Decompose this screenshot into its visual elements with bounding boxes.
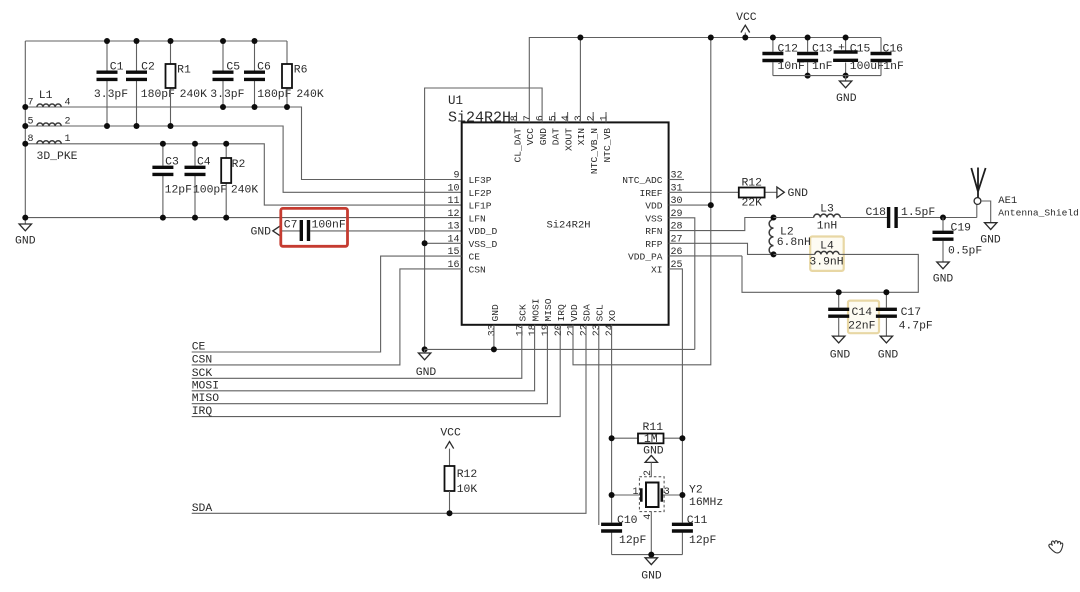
svg-text:22K: 22K — [741, 198, 762, 210]
svg-text:C12: C12 — [778, 44, 799, 56]
svg-text:1.5pF: 1.5pF — [901, 207, 935, 219]
power symbol VCC — [744, 26, 746, 38]
svg-text:6: 6 — [536, 115, 547, 121]
svg-text:VSS_D: VSS_D — [469, 239, 498, 250]
svg-text:1nF: 1nF — [883, 61, 904, 73]
inductor L4 3.9nH — [742, 254, 918, 292]
capacitor C7 100nF — [301, 220, 308, 241]
wire pin23 SCL dangling — [598, 325, 600, 525]
svg-text:13: 13 — [447, 222, 459, 233]
svg-text:GND: GND — [788, 188, 809, 200]
wire crystal pin 4 to gnd rail — [650, 512, 652, 555]
svg-text:C13: C13 — [812, 44, 833, 56]
red highlight box around C7 — [281, 208, 348, 246]
wire pin33 GND — [493, 325, 495, 350]
svg-text:LF3P: LF3P — [469, 175, 492, 186]
svg-text:SDA: SDA — [582, 304, 593, 322]
resistor R12 10K pullup — [449, 442, 451, 467]
capacitor C10 12pF — [611, 533, 613, 555]
svg-text:Y2: Y2 — [689, 484, 703, 496]
svg-text:4.7pF: 4.7pF — [899, 321, 933, 333]
svg-text:IRQ: IRQ — [192, 406, 213, 418]
svg-text:L4: L4 — [820, 240, 834, 252]
svg-text:GND: GND — [641, 570, 662, 582]
svg-text:1: 1 — [64, 134, 70, 145]
wire bottom rail LFN — [25, 217, 461, 219]
svg-text:3.3pF: 3.3pF — [210, 89, 244, 101]
svg-text:C4: C4 — [197, 157, 211, 169]
svg-text:LF1P: LF1P — [469, 201, 492, 212]
svg-text:XIN: XIN — [576, 128, 587, 145]
svg-text:NTC_ADC: NTC_ADC — [622, 175, 663, 186]
svg-text:VDD: VDD — [645, 201, 663, 212]
svg-text:22nF: 22nF — [848, 321, 876, 333]
svg-text:100nF: 100nF — [312, 219, 346, 231]
svg-text:3: 3 — [664, 487, 670, 498]
inductor L1 winding 1 pins 7-4 — [37, 104, 61, 107]
svg-text:7: 7 — [27, 97, 33, 108]
wire left vertical to ground — [24, 41, 26, 224]
svg-text:GND: GND — [416, 367, 437, 379]
svg-text:R6: R6 — [294, 65, 308, 77]
wire pin20 IRQ route — [192, 325, 561, 417]
yellow highlight box around L4 — [810, 237, 844, 271]
svg-text:SCK: SCK — [192, 368, 213, 380]
svg-text:IRQ: IRQ — [556, 304, 567, 322]
svg-text:CE: CE — [469, 252, 481, 263]
wire pin16 CSN route — [192, 269, 462, 365]
svg-text:3.3pF: 3.3pF — [94, 89, 128, 101]
wire pin14 VSS_D to GND vertical — [425, 242, 462, 244]
ground flag at R12 — [777, 187, 784, 198]
wire VCC top rail — [529, 38, 881, 123]
svg-text:GND: GND — [250, 227, 271, 239]
svg-text:C6: C6 — [257, 61, 271, 73]
svg-text:C19: C19 — [951, 223, 972, 235]
ground symbol left — [19, 224, 31, 231]
svg-text:12pF: 12pF — [619, 535, 647, 547]
svg-text:R12: R12 — [457, 469, 478, 481]
svg-text:1nF: 1nF — [812, 61, 833, 73]
svg-text:C16: C16 — [883, 44, 904, 56]
capacitor C15 polarized 100uF — [845, 38, 847, 76]
svg-text:6.8nH: 6.8nH — [777, 237, 811, 249]
svg-text:1nH: 1nH — [817, 220, 838, 232]
ground symbol crystal — [645, 558, 657, 565]
svg-text:C3: C3 — [165, 157, 179, 169]
svg-text:IREF: IREF — [639, 188, 662, 199]
wire pin26 VDD_PA — [669, 255, 742, 257]
svg-text:C2: C2 — [141, 61, 155, 73]
ground symbol under IC — [424, 349, 426, 352]
svg-text:33: 33 — [488, 324, 499, 336]
pin 2 NTC_VB_N stub — [592, 112, 594, 122]
svg-text:8: 8 — [27, 134, 33, 145]
resistor R12 22K on IREF — [669, 191, 777, 193]
resistor R6 — [286, 41, 288, 107]
svg-text:10nF: 10nF — [778, 61, 806, 73]
capacitor C3 — [162, 144, 164, 218]
svg-text:VDD: VDD — [569, 304, 580, 322]
inductor L2 6.8nH — [769, 219, 773, 254]
svg-text:L1: L1 — [39, 90, 53, 102]
wire pin22 SDA route — [192, 325, 586, 514]
svg-text:GND: GND — [878, 349, 899, 361]
svg-text:GND: GND — [980, 235, 1001, 247]
resistor R1 — [170, 41, 172, 126]
svg-text:5: 5 — [27, 116, 33, 127]
wire pin6 GND bridge over IC — [425, 88, 542, 349]
cursor hand icon — [1049, 541, 1063, 553]
svg-text:C1: C1 — [110, 61, 124, 73]
pin 8 CL_DAT stub — [516, 112, 518, 122]
svg-text:NTC_VB: NTC_VB — [602, 128, 613, 163]
svg-text:1: 1 — [632, 487, 638, 498]
capacitor C16 — [880, 38, 882, 76]
svg-text:VDD_D: VDD_D — [469, 226, 498, 237]
svg-text:4: 4 — [64, 97, 70, 108]
svg-text:R1: R1 — [177, 65, 191, 77]
svg-text:3D_PKE: 3D_PKE — [37, 151, 78, 163]
yellow highlight box around C14 label — [848, 301, 879, 334]
svg-text:20: 20 — [554, 324, 565, 336]
inductor L1 winding 2 pins 5-2 — [37, 123, 61, 126]
inductor L3 1nH — [774, 217, 888, 219]
svg-text:MISO: MISO — [192, 393, 220, 405]
resistor R11 1M — [612, 437, 683, 439]
svg-text:26: 26 — [671, 247, 683, 258]
svg-text:12pF: 12pF — [689, 535, 717, 547]
svg-text:16MHz: 16MHz — [689, 497, 723, 509]
wire pin21 VDD route to pin30 — [573, 38, 711, 365]
junction dots left block — [104, 38, 110, 44]
wire pin27 RFP to L2 bottom — [669, 243, 774, 254]
svg-text:VSS: VSS — [645, 213, 663, 224]
svg-text:1: 1 — [600, 115, 611, 121]
pin 4 XOUT stub — [567, 112, 569, 122]
wire top rail left block — [25, 40, 287, 42]
wire GND rail under IC — [425, 348, 695, 350]
svg-text:NTC_VB_N: NTC_VB_N — [589, 128, 600, 174]
svg-text:AE1: AE1 — [998, 195, 1017, 207]
wire pin29 VSS route to GND rail — [669, 218, 695, 350]
svg-text:GND: GND — [933, 273, 954, 285]
svg-text:22: 22 — [579, 324, 590, 336]
svg-text:CL_DAT: CL_DAT — [512, 128, 523, 163]
svg-text:CSN: CSN — [469, 264, 486, 275]
svg-text:SDA: SDA — [192, 503, 213, 515]
node GND junction dots — [422, 240, 428, 246]
svg-text:8: 8 — [510, 115, 521, 121]
capacitor C13 — [807, 38, 809, 76]
svg-text:VCC: VCC — [525, 128, 536, 146]
svg-text:10: 10 — [447, 183, 459, 194]
svg-text:240K: 240K — [296, 89, 324, 101]
svg-text:Antenna_Shield: Antenna_Shield — [998, 207, 1079, 218]
svg-text:9: 9 — [453, 171, 459, 182]
capacitor C1 — [106, 41, 108, 126]
svg-text:C18: C18 — [865, 207, 886, 219]
svg-text:24: 24 — [605, 324, 616, 336]
wire pin24 XO column — [611, 325, 613, 523]
svg-text:C7: C7 — [284, 220, 298, 232]
svg-text:XOUT: XOUT — [563, 128, 574, 151]
svg-text:XO: XO — [607, 310, 618, 322]
svg-text:LF2P: LF2P — [469, 188, 492, 199]
wire pin15 CE route — [192, 256, 462, 352]
svg-text:Si24R2H: Si24R2H — [448, 109, 511, 126]
svg-text:3: 3 — [574, 115, 585, 121]
svg-text:CSN: CSN — [192, 354, 213, 366]
pin 32 NTC_ADC stub — [669, 179, 684, 181]
svg-text:2: 2 — [587, 115, 598, 121]
svg-text:C11: C11 — [687, 515, 708, 527]
svg-text:GND: GND — [15, 235, 36, 247]
ground symbol cap bank — [845, 76, 847, 81]
svg-text:L3: L3 — [820, 204, 834, 216]
wire pin17 SCK route — [192, 325, 522, 379]
svg-text:R12: R12 — [741, 177, 762, 189]
svg-text:18: 18 — [528, 324, 539, 336]
svg-text:+: + — [838, 43, 845, 55]
wire row2 L1 winding 5-2 to LF2P — [25, 126, 461, 192]
svg-text:240K: 240K — [231, 185, 259, 197]
svg-text:4: 4 — [643, 514, 654, 520]
wire cap bank bottom rail — [773, 75, 881, 77]
capacitor C17 4.7pF — [885, 292, 887, 336]
resistor R2 — [225, 144, 227, 218]
svg-text:5: 5 — [548, 115, 559, 121]
svg-text:VCC: VCC — [736, 12, 757, 24]
svg-text:GND: GND — [490, 304, 501, 322]
svg-text:C15: C15 — [850, 44, 871, 56]
antenna AE1 — [976, 205, 978, 218]
svg-text:10K: 10K — [457, 484, 478, 496]
wire pin30 VDD — [669, 204, 711, 206]
svg-text:4: 4 — [561, 115, 572, 121]
svg-text:RFP: RFP — [645, 239, 663, 250]
crystal Y2 16MHz — [612, 494, 683, 496]
svg-text:R2: R2 — [232, 159, 246, 171]
wire pin18 MOSI route — [192, 325, 535, 391]
wire GND flag to C7 — [281, 230, 300, 232]
svg-text:3.9nH: 3.9nH — [809, 257, 843, 269]
inductor L1 winding 3 pins 8-1 — [37, 141, 61, 144]
svg-text:7: 7 — [523, 115, 534, 121]
capacitor C2 — [136, 41, 138, 126]
capacitor C4 — [194, 144, 196, 218]
svg-text:C14: C14 — [852, 307, 873, 319]
svg-text:100pF: 100pF — [193, 185, 227, 197]
pin 1 NTC_VB stub — [605, 112, 607, 122]
svg-text:100uF: 100uF — [850, 61, 884, 73]
svg-text:21: 21 — [567, 324, 578, 336]
svg-text:MOSI: MOSI — [192, 380, 219, 392]
svg-text:DAT: DAT — [551, 128, 562, 146]
wire row1 L1 winding 7-4 to LF3P — [25, 107, 461, 180]
wire pin25 XI column — [669, 269, 683, 523]
svg-text:12: 12 — [447, 209, 459, 220]
svg-text:240K: 240K — [180, 89, 208, 101]
svg-text:LFN: LFN — [469, 213, 486, 224]
wire pin19 MISO route — [192, 325, 548, 404]
svg-text:VCC: VCC — [440, 427, 461, 439]
svg-text:GND: GND — [538, 128, 549, 146]
capacitor C12 — [772, 38, 774, 76]
wire row3 L1 winding 8-1 to LF1P — [25, 144, 461, 205]
svg-text:GND: GND — [836, 93, 857, 105]
wire pin3 XIN riser — [579, 38, 581, 123]
capacitor C14 22nF — [838, 292, 840, 336]
op-amp U1 Si24R2H IC body — [462, 122, 669, 324]
pin 5 DAT stub — [554, 112, 556, 122]
svg-text:23: 23 — [592, 324, 603, 336]
svg-text:17: 17 — [515, 324, 526, 336]
svg-text:SCK: SCK — [518, 304, 529, 322]
capacitor C5 — [222, 41, 224, 107]
capacitor C18 1.5pF — [889, 207, 897, 228]
svg-text:MISO: MISO — [543, 298, 554, 321]
svg-text:GND: GND — [643, 445, 664, 457]
svg-text:U1: U1 — [448, 94, 463, 108]
svg-text:0.5pF: 0.5pF — [948, 245, 982, 257]
svg-text:19: 19 — [541, 324, 552, 336]
svg-text:XI: XI — [651, 264, 663, 275]
svg-text:C10: C10 — [617, 515, 638, 527]
capacitor C6 — [254, 41, 256, 107]
svg-text:RFN: RFN — [645, 226, 662, 237]
svg-text:VDD_PA: VDD_PA — [628, 252, 663, 263]
wire pin28 RFN to L2 top — [669, 218, 774, 231]
svg-text:1M: 1M — [644, 433, 658, 446]
capacitor C11 12pF — [681, 533, 683, 555]
svg-text:12pF: 12pF — [165, 185, 193, 197]
wire crystal gnd rail — [612, 554, 683, 556]
svg-text:Si24R2H: Si24R2H — [546, 220, 590, 232]
svg-text:2: 2 — [64, 116, 70, 127]
svg-text:C17: C17 — [901, 307, 922, 319]
svg-text:C5: C5 — [226, 61, 240, 73]
svg-text:11: 11 — [447, 196, 459, 207]
svg-text:MOSI: MOSI — [530, 298, 541, 321]
svg-text:GND: GND — [830, 349, 851, 361]
svg-text:CE: CE — [192, 342, 206, 354]
svg-text:SCL: SCL — [594, 304, 605, 322]
svg-text:2: 2 — [643, 470, 654, 476]
capacitor C19 0.5pF — [942, 218, 944, 262]
